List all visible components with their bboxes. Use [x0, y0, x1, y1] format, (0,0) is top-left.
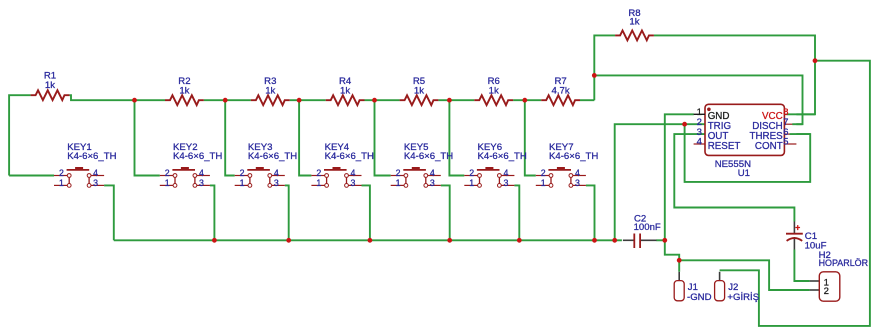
svg-text:4.7k: 4.7k	[552, 86, 570, 97]
svg-text:CONT: CONT	[755, 141, 783, 152]
svg-text:1k: 1k	[179, 86, 189, 97]
svg-text:1k: 1k	[414, 86, 424, 97]
svg-text:3: 3	[351, 178, 356, 188]
svg-text:1: 1	[541, 178, 546, 188]
svg-text:4: 4	[93, 168, 98, 178]
svg-text:3: 3	[503, 178, 508, 188]
svg-text:2: 2	[396, 168, 401, 178]
svg-text:K4-6×6_TH: K4-6×6_TH	[404, 151, 453, 162]
svg-text:3: 3	[430, 178, 435, 188]
svg-text:3: 3	[93, 178, 98, 188]
svg-text:1k: 1k	[45, 80, 55, 91]
svg-text:100nF: 100nF	[634, 222, 661, 233]
svg-text:4: 4	[274, 168, 279, 178]
svg-text:K4-6×6_TH: K4-6×6_TH	[173, 151, 222, 162]
svg-text:2: 2	[469, 168, 474, 178]
svg-text:1k: 1k	[629, 16, 639, 27]
svg-text:2: 2	[165, 168, 170, 178]
svg-text:K4-6×6_TH: K4-6×6_TH	[478, 151, 527, 162]
svg-text:1: 1	[59, 178, 64, 188]
svg-text:K4-6×6_TH: K4-6×6_TH	[549, 151, 598, 162]
svg-text:4: 4	[697, 137, 703, 148]
svg-text:1: 1	[396, 178, 401, 188]
svg-text:2: 2	[824, 286, 829, 297]
svg-text:1: 1	[165, 178, 170, 188]
svg-text:4: 4	[503, 168, 508, 178]
svg-text:1: 1	[240, 178, 245, 188]
svg-text:1: 1	[469, 178, 474, 188]
svg-text:U1: U1	[738, 168, 750, 179]
svg-text:+GİRİŞ: +GİRİŞ	[727, 292, 759, 303]
svg-text:1: 1	[316, 178, 321, 188]
svg-text:3: 3	[274, 178, 279, 188]
svg-text:K4-6×6_TH: K4-6×6_TH	[67, 151, 116, 162]
svg-text:4: 4	[430, 168, 435, 178]
svg-text:1k: 1k	[489, 86, 499, 97]
svg-text:4: 4	[351, 168, 356, 178]
svg-text:K4-6×6_TH: K4-6×6_TH	[248, 151, 297, 162]
svg-text:2: 2	[316, 168, 321, 178]
svg-text:3: 3	[575, 178, 580, 188]
svg-text:2: 2	[541, 168, 546, 178]
svg-text:-GND: -GND	[687, 292, 712, 303]
svg-text:4: 4	[575, 168, 580, 178]
svg-text:2: 2	[59, 168, 64, 178]
svg-text:RESET: RESET	[708, 141, 741, 152]
svg-text:K4-6×6_TH: K4-6×6_TH	[325, 151, 374, 162]
svg-text:4: 4	[199, 168, 204, 178]
svg-text:3: 3	[199, 178, 204, 188]
svg-text:+: +	[795, 222, 800, 232]
svg-text:5: 5	[783, 137, 788, 148]
svg-text:1k: 1k	[340, 86, 350, 97]
svg-text:1k: 1k	[265, 86, 275, 97]
svg-text:2: 2	[240, 168, 245, 178]
svg-text:HOPARLÖR: HOPARLÖR	[819, 258, 869, 269]
